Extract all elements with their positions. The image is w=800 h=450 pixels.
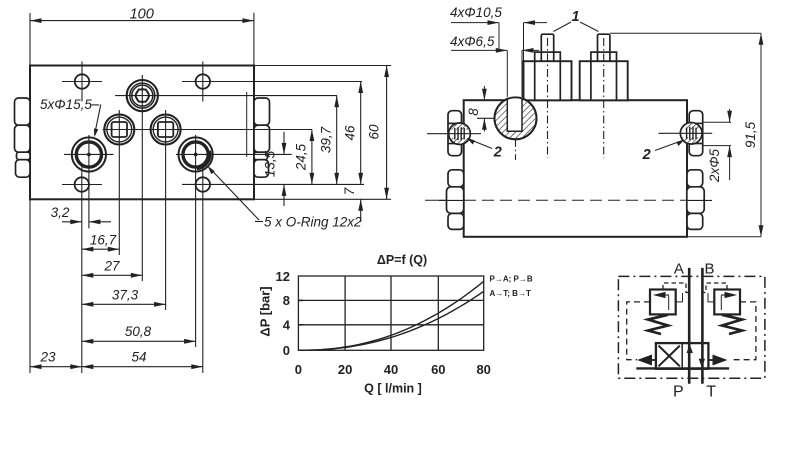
dim 3,2 — [62, 221, 82, 223]
plug right lower (hex stack) — [687, 170, 712, 230]
relief valve left: outlet line (dashed) — [627, 302, 650, 360]
relief valve right: body — [714, 290, 740, 315]
svg-text:100: 100 — [130, 7, 154, 23]
svg-text:54: 54 — [131, 350, 146, 365]
mounting hole top-left — [75, 74, 89, 88]
stud left: threaded end — [524, 34, 572, 158]
leader 2 right — [655, 141, 681, 151]
plug left upper (section) — [448, 111, 462, 156]
leader 5xPhi15,5 — [91, 104, 99, 106]
svg-text:B: B — [704, 261, 714, 278]
directional valve body — [656, 343, 709, 369]
centerline round ports — [64, 153, 114, 155]
relief valve right: pilot line (dashed) — [702, 283, 727, 293]
svg-text:3,2: 3,2 — [51, 205, 70, 220]
relief valve right: tap stub — [708, 293, 714, 302]
dim 46 — [360, 82, 362, 185]
port T (round right) with O-ring arc — [179, 137, 213, 171]
svg-text:2xΦ5: 2xΦ5 — [707, 148, 722, 183]
plug right upper (section) — [689, 111, 703, 156]
svg-text:A→T; B→T: A→T; B→T — [490, 289, 531, 298]
dim 4xPhi10,5 arrows — [451, 22, 499, 24]
svg-text:91,5: 91,5 — [743, 121, 758, 148]
svg-text:13,5: 13,5 — [263, 150, 278, 177]
port hex socket (top center) — [127, 80, 158, 111]
centerline bottom small holes — [62, 184, 102, 186]
stud right: nut — [591, 52, 617, 61]
dim 37,3 — [82, 303, 166, 305]
chart frame — [298, 276, 483, 350]
directional valve straight flow arrows — [687, 344, 693, 353]
relief valve right: outlet line (dashed) — [733, 302, 756, 360]
dim 7 — [360, 199, 362, 222]
stud right: centerline — [603, 38, 605, 158]
mounting hole bottom-right — [196, 177, 210, 191]
svg-text:46: 46 — [343, 125, 358, 141]
svg-text:0: 0 — [295, 362, 302, 377]
relief valve left: spring — [648, 315, 668, 334]
svg-text:ΔP [bar]: ΔP [bar] — [258, 286, 273, 336]
dim 8 — [483, 86, 485, 100]
stud left: sleeve — [524, 61, 572, 100]
dim 60 — [386, 66, 388, 200]
svg-text:39,7: 39,7 — [319, 126, 334, 153]
svg-text:4: 4 — [283, 318, 291, 333]
valve block plan outline — [30, 66, 254, 200]
svg-text:60: 60 — [431, 362, 445, 377]
svg-text:1: 1 — [572, 9, 580, 25]
block edge extensions right — [255, 65, 391, 67]
svg-text:40: 40 — [384, 362, 398, 377]
svg-text:4xΦ6,5: 4xΦ6,5 — [450, 34, 495, 49]
dim 13,5 — [283, 132, 285, 155]
dim 2xPhi5 lines — [703, 121, 731, 123]
svg-text:5 x O-Ring 12x2: 5 x O-Ring 12x2 — [264, 215, 362, 230]
centerline hex port — [115, 95, 337, 97]
interior edge line — [246, 92, 248, 157]
mounting hole bottom-left — [75, 177, 89, 191]
plug left lower (hex stack) — [439, 170, 464, 230]
dim 27 — [82, 274, 143, 276]
svg-text:23: 23 — [39, 350, 56, 365]
stud right: sleeve — [580, 61, 628, 100]
counterbore hole edge extensions — [498, 23, 500, 49]
dim 16,7 — [82, 248, 120, 250]
svg-text:50,8: 50,8 — [125, 324, 152, 339]
svg-text:80: 80 — [476, 362, 490, 377]
svg-text:ΔP=f (Q): ΔP=f (Q) — [377, 253, 427, 267]
svg-text:37,3: 37,3 — [112, 288, 139, 303]
line B (thick vertical) — [701, 268, 704, 384]
svg-text:2: 2 — [642, 147, 651, 163]
dim 50,8 — [82, 340, 196, 342]
leader O-ring — [255, 221, 263, 223]
svg-text:P→A; P→B: P→A; P→B — [490, 274, 533, 283]
svg-text:7: 7 — [342, 187, 357, 195]
directional valve crossed flows — [659, 346, 680, 367]
dim 23 — [30, 366, 82, 368]
dim 54 — [82, 366, 203, 368]
leader 2 left — [470, 140, 492, 149]
port A (square socket left) — [104, 115, 134, 145]
left side plug stack — [15, 98, 31, 177]
svg-text:20: 20 — [338, 362, 352, 377]
relief valve left: flow arrow — [653, 292, 666, 298]
stud left: centerline — [547, 38, 549, 158]
dashed centerline — [425, 199, 446, 201]
svg-text:2: 2 — [493, 145, 502, 161]
curve A-T — [298, 291, 483, 350]
dim 4xPhi6,5 arrows — [451, 49, 507, 51]
grid lines — [344, 276, 346, 350]
svg-text:4xΦ10,5: 4xΦ10,5 — [450, 5, 502, 20]
mounting hole top-right — [196, 74, 210, 88]
svg-text:8: 8 — [466, 108, 481, 116]
svg-text:Q [ l/min ]: Q [ l/min ] — [364, 382, 422, 396]
right port wing with arrow — [713, 355, 728, 366]
svg-text:60: 60 — [367, 124, 382, 140]
relief valve left: pilot line (dashed) — [663, 283, 689, 293]
dim 39,7 — [336, 96, 338, 185]
centerline top small holes — [62, 81, 102, 83]
valve block front outline — [464, 100, 687, 237]
relief valve left: tap stub — [676, 293, 683, 302]
relief valve left: body — [650, 290, 676, 315]
centerline square ports — [103, 129, 312, 131]
svg-text:P: P — [673, 384, 684, 401]
relief valve right: flow arrow — [725, 292, 738, 298]
svg-text:24,5: 24,5 — [294, 143, 309, 171]
stud right: threaded end — [580, 34, 628, 158]
schematic boundary (dash-dot) — [618, 276, 765, 378]
svg-text:T: T — [706, 384, 716, 401]
port P (round left) — [72, 137, 106, 171]
svg-text:0: 0 — [283, 343, 290, 358]
dim 91,5 — [610, 32, 761, 34]
svg-text:27: 27 — [103, 259, 120, 274]
line A (thick vertical) — [688, 268, 691, 384]
left port wing with arrow — [637, 355, 652, 366]
svg-text:5xΦ15,5: 5xΦ15,5 — [40, 97, 92, 112]
relief valve right: spring — [722, 315, 742, 334]
counterbore section circle — [495, 96, 537, 161]
svg-text:A: A — [674, 261, 684, 278]
svg-text:16,7: 16,7 — [90, 233, 117, 248]
leader label 1 — [554, 22, 572, 32]
dim 100 (top) — [29, 13, 31, 65]
dim 24,5 — [311, 130, 313, 185]
svg-text:12: 12 — [276, 269, 290, 284]
stud left: nut — [535, 52, 561, 61]
right side plug stack — [254, 98, 270, 177]
curve P-A — [298, 281, 483, 350]
svg-text:8: 8 — [283, 293, 290, 308]
port B (square socket right) — [151, 115, 181, 145]
